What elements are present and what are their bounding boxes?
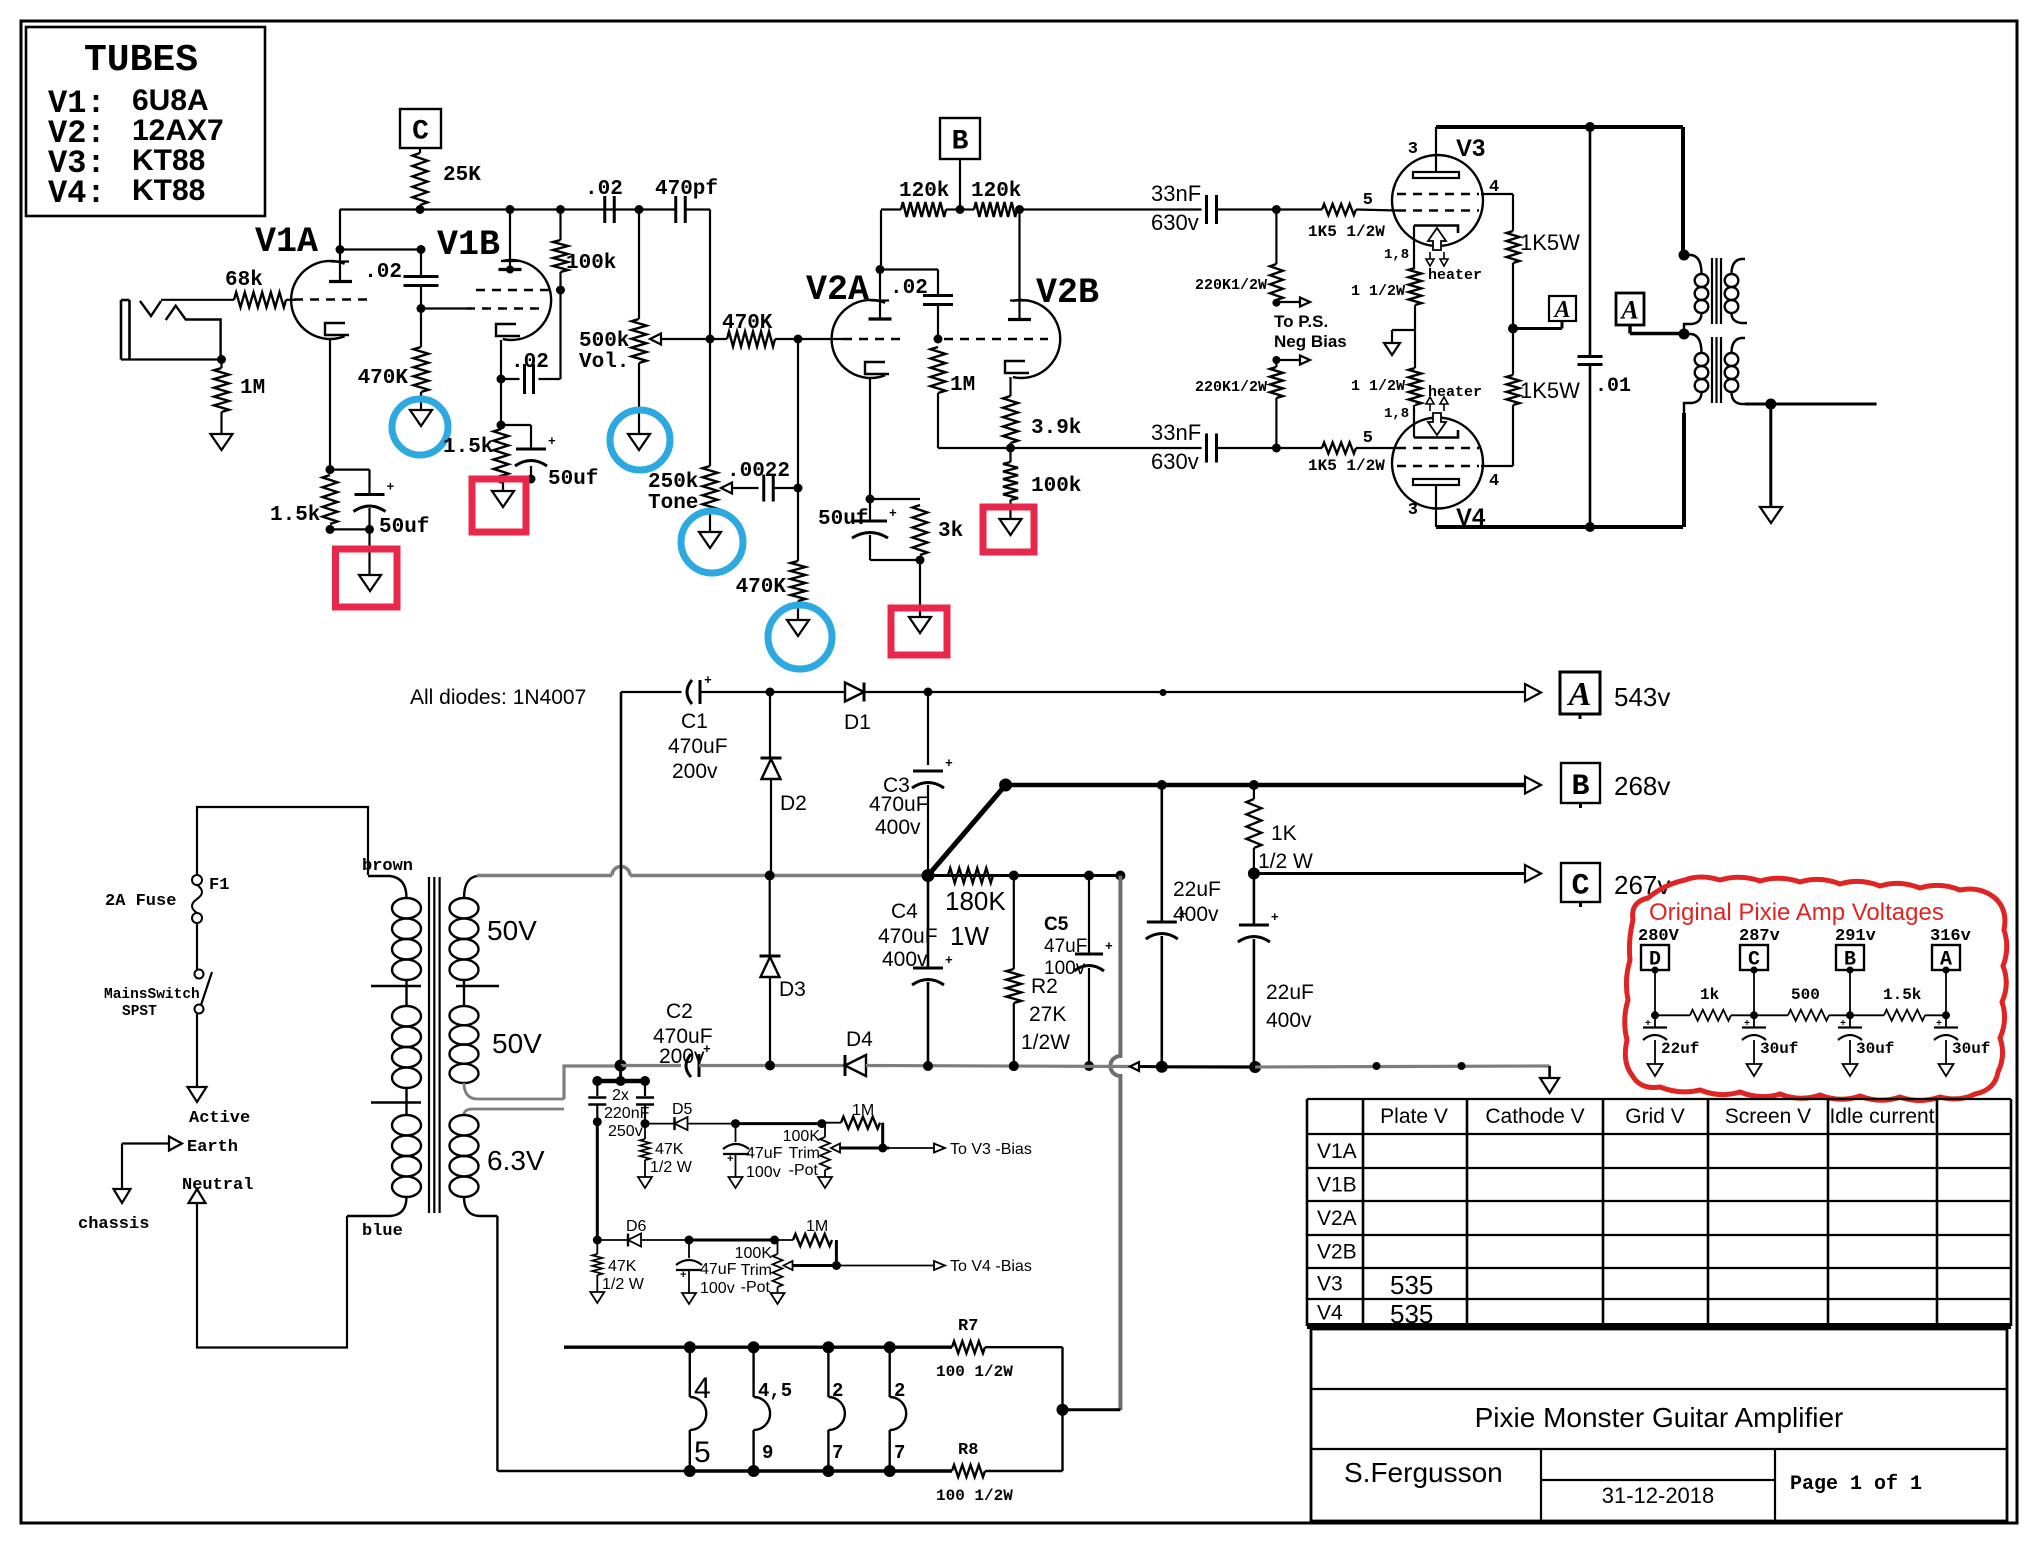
svg-text:D3: D3 [779,978,806,1001]
svg-text:30uf: 30uf [1760,1040,1798,1058]
cathode V4 [1414,430,1458,438]
svg-text:R8: R8 [958,1441,978,1460]
wire A to OT center [1628,325,1632,334]
svg-text:.0022: .0022 [727,460,790,483]
PT primary lead bottom [347,1197,407,1216]
wire 50V-2 lead [564,1066,621,1099]
wire hop over C1 drop [612,867,630,876]
cathode V2A [865,362,889,374]
grid V2A (dashed) [843,338,906,341]
svg-text:blue: blue [362,1222,403,1241]
svg-text:Earth: Earth [187,1138,238,1157]
svg-text:68k: 68k [225,269,263,292]
title block box [1311,1329,2007,1521]
svg-text:7: 7 [832,1442,843,1464]
resistor 1M bias 2 [793,1234,832,1246]
svg-text:To V4 -Bias: To V4 -Bias [950,1258,1032,1275]
svg-text:+: + [680,1270,687,1282]
wire thick drop to speaker net [1110,876,1120,1411]
resistor R7 [952,1341,985,1353]
ground chassis [114,1189,131,1203]
wire ref B drop [1849,970,1851,1015]
svg-text:C: C [412,117,429,148]
svg-text:B: B [1571,770,1589,804]
arrow net A out [1525,684,1541,701]
svg-text:V3: V3 [1317,1273,1343,1296]
red square marker V1B ground [472,479,526,532]
heater V4 arrow [1428,413,1446,435]
wire .0022 to node [774,487,799,489]
svg-text:1M: 1M [806,1218,828,1235]
wire OT top rail [1436,125,1683,129]
svg-text:543v: 543v [1614,682,1670,712]
ground trimpot 2 [771,1293,785,1304]
svg-text:To P.S.: To P.S. [1274,312,1328,331]
svg-text:KT88: KT88 [132,174,205,207]
node jack4 bottom [884,1465,896,1477]
resistor ref 1k [1690,1010,1731,1021]
wire ref bus [1655,1014,1690,1016]
svg-text:V2A: V2A [1317,1207,1357,1230]
svg-text:400v: 400v [882,948,928,971]
cathode V3 [1414,226,1458,234]
svg-text:1,8: 1,8 [1384,406,1409,422]
svg-text:268v: 268v [1614,771,1670,801]
svg-text:.01: .01 [1595,375,1631,398]
PT core [428,877,430,1213]
svg-text:Neutral: Neutral [182,1176,253,1195]
capacitor ref 30uf 3 [1945,1015,1947,1027]
terminal Earth [169,1137,182,1151]
resistor ref 500 [1788,1010,1829,1021]
ground jack [211,434,233,450]
svg-text:200v: 200v [672,760,718,783]
ground V2A cathode [909,617,931,633]
ground PSU rail end [1540,1078,1559,1093]
svg-text:4: 4 [694,1372,711,1405]
wire V1B RC bottom [501,478,531,480]
svg-text:Plate V: Plate V [1380,1105,1448,1128]
arrow To V4 -Bias [934,1261,945,1270]
svg-text:250k: 250k [648,471,698,494]
svg-text:22uf: 22uf [1661,1040,1699,1058]
svg-text:180K: 180K [945,886,1006,916]
arrow to PS neg bias upper [1300,298,1310,307]
svg-text:47uF: 47uF [746,1145,783,1162]
PT primary stub 2 [371,1101,421,1103]
svg-text:V1B: V1B [1317,1174,1357,1197]
resistor 1M bias 1 [841,1117,880,1129]
PT secondary 50V-1 lead [464,876,477,898]
resistor 3k [913,505,928,555]
TUBES legend box [26,27,265,216]
svg-text:C1: C1 [681,710,708,733]
svg-text:V1B: V1B [437,225,500,265]
svg-text:120k: 120k [971,180,1021,203]
net box B output [1561,763,1600,803]
svg-text:1.5k: 1.5k [1883,986,1922,1004]
resistor R8 [952,1465,985,1477]
plate bar V2A [869,317,892,320]
svg-text:+: + [704,673,712,688]
wire .02 to V1B grid node [420,286,422,309]
svg-text:1/2 W: 1/2 W [602,1276,645,1293]
net box D ref [1641,945,1669,970]
svg-text:C: C [1571,869,1589,903]
wire V2A plate to .02 [880,268,938,270]
svg-text:535: 535 [1390,1299,1433,1329]
resistor 25K [413,153,428,205]
wire switch to Active [196,1013,198,1087]
wire to A box 1 [1513,327,1562,330]
svg-text:Trim: Trim [741,1262,772,1279]
svg-text:47uF: 47uF [700,1261,737,1278]
resistor 180K 1W [948,868,993,883]
svg-text:1/2 W: 1/2 W [650,1159,693,1176]
screen V3 (dashed) [1397,193,1479,196]
tube V2B envelope [1013,300,1060,378]
wire V1A cathode down [329,339,331,470]
svg-text:287v: 287v [1739,927,1780,946]
ground V2B [1000,519,1022,535]
wire rail to 22uF2 [1162,1065,1255,1068]
resistor 68k [234,292,286,307]
wire 220nF bar [596,1079,648,1084]
diode D6 [597,1239,628,1241]
svg-text:22uF: 22uF [1173,878,1221,901]
resistor 100k V2B [1009,448,1011,462]
wire C3 drop [927,692,929,765]
ground vol pot [628,434,650,450]
svg-text:4: 4 [1489,472,1499,491]
svg-text:KT88: KT88 [132,144,205,177]
wire 1K5 to V4 grid [1356,447,1397,449]
svg-text:33nF: 33nF [1151,420,1201,445]
svg-text:1K: 1K [1271,822,1297,845]
svg-text:630v: 630v [1151,449,1199,474]
resistor 47K upper [644,1124,646,1139]
svg-text:V3: V3 [1456,135,1485,162]
heater V3 small arrows [1426,252,1434,266]
svg-text:50uf: 50uf [818,508,868,531]
wire B line [1006,783,1525,788]
wire jack tip to 68k [161,299,234,301]
wire 470pf down to wiper line [709,210,711,340]
wire fuse to switch [196,923,198,969]
svg-text:100v: 100v [746,1164,781,1181]
svg-text:Trim: Trim [789,1145,820,1162]
ground 47uF 1 [729,1177,743,1188]
wire V2A plate [880,210,882,270]
svg-text:V4:: V4: [48,175,106,212]
wire grid node to V1B [421,307,466,309]
svg-text:Original Pixie Amp Voltages: Original Pixie Amp Voltages [1649,899,1944,926]
wire Earth to chassis [122,1142,169,1144]
wire join to PSU drop [1063,1408,1121,1411]
wire cathode to 3k [870,498,920,500]
potentiometer 500k Vol [632,319,647,363]
capacitor .01 [1589,127,1592,357]
node rail 100k [556,205,565,214]
heater V3 arrow [1428,228,1446,250]
svg-text:D6: D6 [626,1218,647,1235]
svg-text:3: 3 [1408,501,1418,520]
wire 33nF top to 1K5 [1217,208,1323,210]
wire speaker bottom bus [688,1469,952,1472]
svg-text:+: + [1105,939,1113,954]
svg-text:+: + [1271,910,1279,925]
ground 470K lower [787,620,809,636]
svg-text:500: 500 [1791,986,1820,1004]
grid V4 (dashed) [1397,447,1479,450]
OT secondary winding lower [1732,338,1746,353]
svg-text:V1A: V1A [255,222,318,262]
wire 3k bottom [870,559,920,561]
capacitor C3 [913,770,943,773]
ground 47K lower [590,1292,604,1303]
resistor 470K grid leak [420,309,422,348]
capacitor ref 22uf [1654,1015,1656,1027]
svg-text:.02: .02 [890,277,928,300]
svg-text:brown: brown [362,857,413,876]
wire C line [1254,872,1525,875]
capacitor 220nF right [644,1081,646,1096]
svg-text:Vol.: Vol. [579,351,629,374]
svg-text:.02: .02 [364,261,402,284]
wire 220nF left down [596,1122,599,1240]
net box B ref [1836,945,1864,970]
wire speaker output [1745,403,1877,406]
node jack1 bottom [684,1465,696,1477]
svg-text:3.9k: 3.9k [1031,417,1081,440]
node V2A plate [876,265,885,274]
potentiometer 250k Tone [703,466,718,511]
screen V1B (dashed) [476,289,557,292]
svg-text:33nF: 33nF [1151,181,1201,206]
wire vol pot top [638,210,640,320]
ground V1A cathode [359,575,381,591]
PT secondary 6.3V lead bottom [464,1197,497,1216]
wire output ground stem [1769,404,1772,507]
wire rail to ground [1255,1066,1550,1067]
wire C box to 25K [419,148,421,153]
node rail vol pot [635,205,644,214]
capacitor 22uF first [1161,785,1164,922]
arrow To V3 -Bias [934,1144,945,1153]
wire to trim 2 [689,1239,775,1242]
svg-text:D1: D1 [844,711,871,734]
svg-text:chassis: chassis [78,1215,149,1234]
svg-text:R7: R7 [958,1317,978,1336]
diode D5 [645,1123,675,1125]
wire C1 to D1 [700,691,845,693]
red annotation outline [1625,877,2007,1101]
node C feed [1248,868,1260,880]
svg-text:3k: 3k [938,520,963,543]
wire PSU top rail left [621,691,682,693]
svg-text:2: 2 [832,1380,843,1402]
resistor 1M V2B grid [931,347,946,393]
input jack [120,300,123,360]
capacitor 22uF second [1253,874,1256,926]
wire V1B RC top [501,424,531,426]
svg-text:+: + [727,1154,734,1166]
resistor 1 1/2W upper [1409,268,1422,305]
node 47uF1 top [731,1119,740,1128]
svg-text:heater: heater [1428,267,1482,284]
ground V1B cathode [492,491,514,507]
svg-text:400v: 400v [1173,903,1219,926]
wire to V4 cathode [1413,405,1415,438]
wire 220nF feed [619,1066,622,1082]
ground heater chain [1384,343,1400,355]
capacitor 33nF top [1205,195,1208,224]
svg-text:C2: C2 [666,1000,693,1023]
tube V3 envelope [1392,155,1483,246]
svg-text:100 1/2W: 100 1/2W [936,1363,1013,1381]
wire mid rail from PT [477,874,612,878]
node jack3 bottom [822,1465,834,1477]
PT primary winding 1 [392,898,421,918]
diode D1 [845,683,864,702]
plate bar V1B [499,268,522,271]
blue circle marker 470K lower ground [768,605,832,669]
svg-text:B: B [952,127,969,158]
capacitor C4 [927,876,930,969]
svg-text:-Pot: -Pot [741,1279,771,1296]
node 1K top [1249,780,1259,790]
capacitor .0022 [762,475,765,502]
svg-text:1,8: 1,8 [1384,247,1409,263]
PT secondary 50V-2 [450,1006,479,1025]
trimpot 100K 1 [820,1137,830,1170]
svg-text:heater: heater [1428,384,1482,401]
wire Neutral to blue [197,1203,347,1348]
resistor 120k left [881,208,901,210]
svg-text:MainsSwitch: MainsSwitch [104,987,200,1003]
svg-text:2x: 2x [612,1087,629,1104]
capacitor ref 30uf 2 [1849,1015,1851,1027]
svg-text:100v: 100v [700,1280,735,1297]
capacitor 220nF left [596,1081,598,1096]
svg-text:100 1/2W: 100 1/2W [936,1487,1013,1505]
wire 180K to caps [1014,874,1121,876]
capacitor .02 V2A-V2B [923,294,953,297]
red square marker V2A ground [891,608,947,655]
svg-text:5: 5 [1363,191,1373,210]
svg-text:1W: 1W [950,921,989,951]
net box A ref [1932,945,1960,970]
wire ref C drop [1753,970,1755,1015]
node 47uF2 top [685,1236,694,1245]
blue circle marker 470K ground [392,399,448,455]
svg-text:Idle current: Idle current [1829,1105,1934,1128]
node V1A cathode top [326,465,335,474]
node bottom rail left [615,1060,627,1072]
svg-text:100v: 100v [1044,958,1086,979]
svg-text:Tone: Tone [648,492,698,515]
wire D1 to A arrow [864,691,1525,693]
capacitor 33nF bottom [1205,434,1208,463]
net box A screen [1549,296,1576,321]
svg-text:D5: D5 [672,1101,693,1118]
svg-text:A: A [1567,676,1592,713]
capacitor .02 coupling V1A-V1B [404,275,439,278]
node mid-rail main [922,869,935,882]
svg-text:470K: 470K [358,367,409,390]
arrow net C out [1525,865,1541,882]
svg-text:1M: 1M [240,377,265,400]
resistor 1K5W lower [1512,329,1514,376]
wire .02 to V2B grid [937,305,939,340]
svg-text:1K5W: 1K5W [1520,230,1580,255]
wire 6.3V to speaker bus [496,1216,498,1471]
wire R7-R8 join [1061,1347,1063,1471]
wire heater chain mid [1414,305,1416,368]
cathode V1A [325,323,349,335]
wire to V3 bias arrow [889,1147,934,1149]
capacitor C2 (series) [686,1054,691,1077]
resistor 100k [559,210,561,241]
svg-text:120k: 120k [899,180,949,203]
svg-text:50V: 50V [492,1028,542,1059]
node D5 anode [641,1119,650,1128]
node V1B cathode RC top [497,421,506,430]
svg-text:500k: 500k [579,330,629,353]
PT primary lead top [368,876,407,898]
wire cathode RC top [330,469,370,471]
grid V3 (dashed) [1397,209,1479,212]
capacitor C1 (series) [687,680,692,704]
svg-text:D4: D4 [846,1028,873,1051]
svg-text:30uf: 30uf [1856,1040,1894,1058]
resistor ref 1.5k [1884,1010,1925,1021]
wire V4 screen out [1481,465,1513,467]
svg-text:+: + [1645,1019,1651,1030]
net box C output [1561,863,1600,902]
svg-text:1K5 1/2W: 1K5 1/2W [1308,223,1385,241]
svg-text:V4: V4 [1317,1302,1343,1325]
svg-text:7: 7 [894,1442,905,1464]
resistor 120k right [960,208,974,210]
node D3 top [765,871,775,881]
svg-text:1/2W: 1/2W [1021,1031,1070,1054]
svg-text:+: + [548,434,556,449]
grid V1A (dashed) [294,298,367,301]
svg-text:-Pot: -Pot [789,1162,819,1179]
svg-text:2A Fuse: 2A Fuse [105,892,176,911]
wire OT bottom rail [1436,525,1683,529]
capacitor 47uF bias 2 [688,1240,690,1258]
svg-text:1M: 1M [852,1102,874,1119]
terminal Active [188,1087,207,1102]
svg-text:+: + [945,953,953,968]
OT core [1711,258,1713,324]
arrow to PS neg bias lower [1300,356,1310,365]
ground 47uF 2 [682,1293,696,1304]
wire 1K5 to V3 grid [1356,210,1397,211]
svg-text:V1A: V1A [1317,1140,1357,1163]
wire mains top [197,807,368,875]
resistor R2 27K [1013,876,1015,970]
svg-text:12AX7: 12AX7 [132,114,224,147]
wire plate to .02 [340,248,421,250]
node OT center tap [1679,329,1690,340]
svg-text:V2A: V2A [806,270,869,310]
terminal Neutral [189,1189,206,1203]
resistor 470K series [727,332,775,347]
svg-text:47K: 47K [608,1258,637,1275]
